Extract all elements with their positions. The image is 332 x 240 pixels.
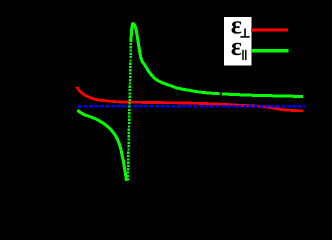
zero axis (blue dashed line): [78, 105, 305, 108]
legend sample line red: [251, 29, 288, 32]
legend box: [224, 17, 251, 66]
curve eps-perp (red): [77, 87, 303, 111]
legend sample line green: [251, 49, 288, 53]
legend subscript perp symbol: [240, 28, 249, 37]
legend subscript parallel symbol: [243, 50, 246, 60]
curve eps-par right branch (green): [131, 24, 303, 97]
curve eps-par left branch (green): [77, 110, 127, 181]
legend label eps-par: [232, 43, 242, 56]
curve eps-par resonance riser (green dotted): [128, 42, 131, 180]
gap in green tail (data sampling gap): [219, 90, 222, 97]
legend label eps-perp: [232, 21, 242, 34]
